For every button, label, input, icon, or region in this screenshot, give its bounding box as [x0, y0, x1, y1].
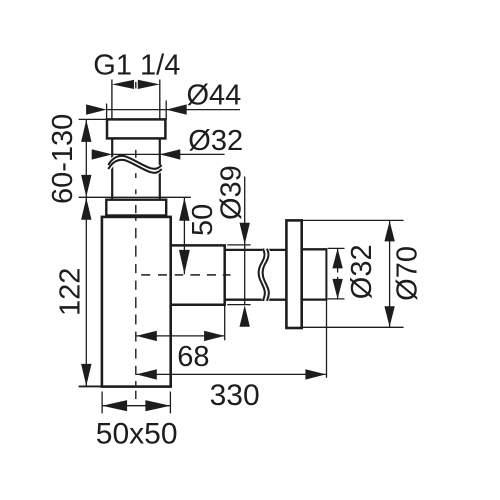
- svg-text:Ø39: Ø39: [215, 165, 247, 220]
- wall pipe stub: [302, 248, 327, 300]
- dimension 50x50: [96, 392, 178, 451]
- dimension G1 1/4: [93, 50, 180, 89]
- dimension O44: [86, 79, 241, 119]
- vertical centerline: [135, 82, 137, 399]
- svg-text:330: 330: [210, 379, 260, 412]
- svg-text:G1 1/4: G1 1/4: [93, 50, 180, 82]
- dimension O32 inlet: [92, 125, 243, 160]
- svg-text:Ø32: Ø32: [188, 125, 243, 157]
- adjustable tube break squiggle: [108, 156, 161, 173]
- dimension 68: [136, 306, 224, 373]
- svg-text:50: 50: [187, 204, 219, 236]
- dimension 60-130: [47, 114, 107, 204]
- wall flange O70: [286, 220, 301, 328]
- dimension O39: [215, 165, 250, 327]
- outlet pipe O32 walls: [225, 250, 287, 300]
- outlet nut section O39: [171, 245, 225, 304]
- svg-text:Ø70: Ø70: [392, 246, 424, 301]
- dimension O70: [302, 220, 424, 327]
- horizontal outlet centerline: [141, 274, 230, 276]
- svg-text:122: 122: [54, 268, 86, 316]
- svg-text:50x50: 50x50: [96, 417, 178, 450]
- svg-text:Ø44: Ø44: [187, 79, 242, 111]
- inlet thread tube G1: [112, 80, 160, 120]
- body top nut: [106, 200, 166, 216]
- inlet tube O32: [112, 138, 160, 200]
- dimension 50: [179, 197, 219, 274]
- outlet pipe break squiggle: [259, 249, 269, 301]
- svg-text:60-130: 60-130: [47, 114, 79, 204]
- top-of-body reference line: [79, 196, 191, 198]
- trap body 50x50: [79, 217, 171, 387]
- svg-text:68: 68: [177, 341, 209, 373]
- dimension O32 outlet: [328, 244, 378, 299]
- top nut flange O44: [107, 119, 165, 138]
- dimension 330: [136, 301, 326, 412]
- dimension 122: [54, 197, 91, 386]
- svg-text:Ø32: Ø32: [346, 244, 378, 299]
